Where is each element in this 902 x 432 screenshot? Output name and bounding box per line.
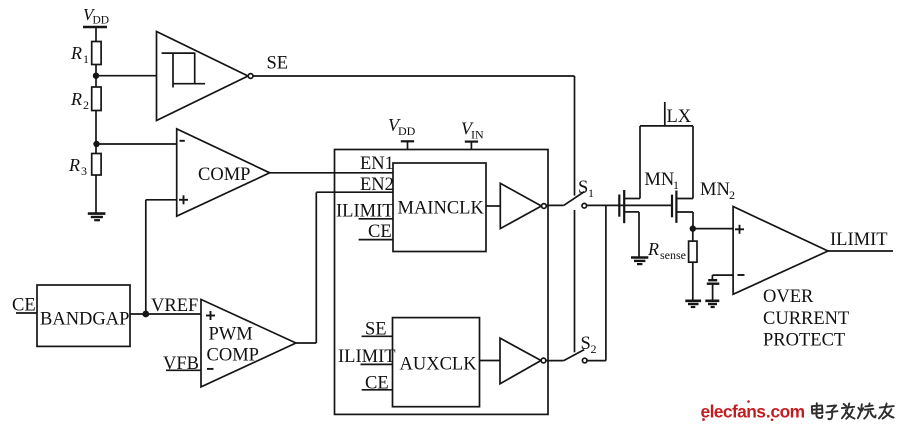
svg-text:S: S [578, 178, 588, 198]
svg-text:R: R [647, 239, 659, 259]
svg-text:AUXCLK: AUXCLK [400, 355, 478, 375]
svg-text:PROTECT: PROTECT [763, 331, 845, 351]
svg-text:2: 2 [729, 188, 735, 202]
svg-text:S: S [581, 334, 591, 354]
svg-text:1: 1 [588, 186, 594, 200]
svg-text:1: 1 [673, 178, 679, 192]
svg-text:elecfans.com: elecfans.com [701, 402, 805, 422]
svg-text:1: 1 [83, 52, 89, 66]
svg-text:EN2: EN2 [360, 175, 394, 195]
svg-text:R: R [70, 89, 82, 109]
svg-text:ILIMIT: ILIMIT [830, 230, 888, 250]
svg-text:R: R [68, 155, 80, 175]
svg-text:2: 2 [83, 98, 89, 112]
svg-text:MN: MN [700, 180, 730, 200]
svg-text:COMP: COMP [198, 165, 250, 185]
svg-text:IN: IN [471, 128, 484, 142]
svg-text:VREF: VREF [151, 296, 198, 316]
svg-text:EN1: EN1 [360, 154, 394, 174]
svg-text:MN: MN [644, 170, 674, 190]
svg-text:ILIMIT: ILIMIT [336, 202, 394, 222]
svg-text:CE: CE [368, 222, 392, 242]
svg-text:CURRENT: CURRENT [763, 309, 849, 329]
svg-text:CE: CE [12, 296, 36, 316]
svg-text:COMP: COMP [207, 346, 259, 366]
svg-text:BANDGAP: BANDGAP [40, 310, 129, 330]
svg-text:PWM: PWM [209, 325, 253, 345]
svg-text:LX: LX [667, 107, 692, 127]
svg-text:3: 3 [81, 164, 87, 178]
svg-text:MAINCLK: MAINCLK [398, 199, 485, 219]
svg-text:SE: SE [267, 54, 289, 74]
svg-text:ILIMIT: ILIMIT [338, 347, 396, 367]
svg-text:DD: DD [93, 15, 110, 27]
svg-text:VFB: VFB [163, 354, 199, 374]
svg-text:sense: sense [660, 248, 686, 262]
svg-text:R: R [70, 43, 82, 63]
svg-text:OVER: OVER [763, 287, 814, 307]
svg-text:DD: DD [398, 124, 416, 138]
svg-text:SE: SE [365, 320, 387, 340]
svg-text:2: 2 [591, 342, 597, 356]
svg-text:CE: CE [365, 373, 389, 393]
